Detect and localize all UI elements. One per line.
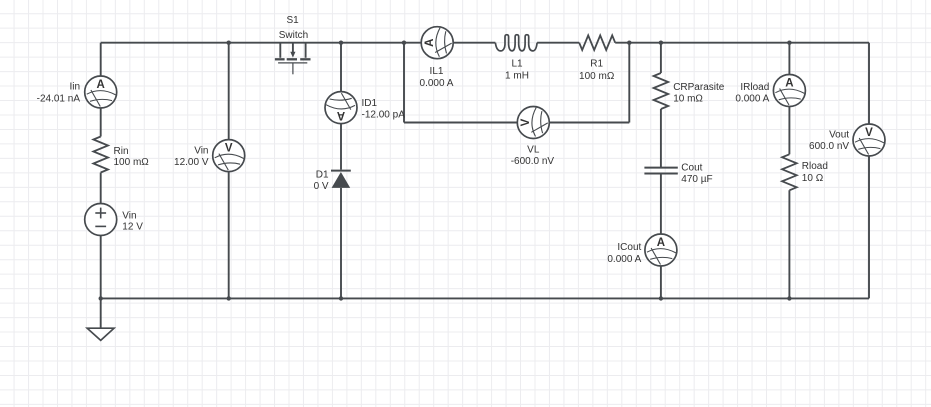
wire IRload Rload-to-bottom xyxy=(788,190,790,298)
label IL1 xyxy=(420,66,454,89)
wire D1 branch diode-to-bottom xyxy=(340,188,342,299)
svg-text:470 µF: 470 µF xyxy=(681,174,712,185)
svg-text:VL: VL xyxy=(527,144,540,155)
label Cout xyxy=(681,162,712,185)
svg-text:A: A xyxy=(424,39,436,47)
ammeter Iin xyxy=(85,76,117,108)
label VL xyxy=(511,144,555,167)
label Rin xyxy=(114,146,150,168)
wire left branch Rin-to-Vin xyxy=(100,173,102,204)
svg-text:600.0 nV: 600.0 nV xyxy=(809,141,849,152)
svg-text:Vout: Vout xyxy=(829,129,849,140)
svg-text:V: V xyxy=(865,127,873,139)
wire IRload meter-to-Rload xyxy=(788,107,790,155)
svg-text:ICout: ICout xyxy=(617,242,641,253)
wire top rail R1-to-right-corner segment xyxy=(615,42,869,44)
node top rail / VL loop right xyxy=(627,41,631,45)
svg-text:A: A xyxy=(337,109,345,121)
svg-text:L1: L1 xyxy=(511,59,523,70)
svg-text:A: A xyxy=(97,79,105,91)
wire Vin voltmeter branch upper xyxy=(228,43,230,140)
svg-text:D1: D1 xyxy=(316,169,329,180)
wire CRParasite cap-to-ICout xyxy=(660,174,662,235)
wire top rail left segment xyxy=(101,42,422,44)
voltmeter VL xyxy=(517,107,549,139)
wire IRload branch upper xyxy=(788,43,790,75)
svg-text:-600.0 nV: -600.0 nV xyxy=(511,156,555,167)
label ID1 xyxy=(362,98,406,120)
svg-text:0 V: 0 V xyxy=(314,181,329,192)
svg-text:A: A xyxy=(785,77,793,89)
node bottom rail / IRload xyxy=(787,296,791,300)
wire VL loop right vertical xyxy=(628,43,630,123)
resistor Rin xyxy=(93,137,108,173)
svg-text:IRload: IRload xyxy=(740,82,769,93)
ground xyxy=(87,298,114,340)
label CRParasite xyxy=(673,82,725,105)
diode D1 xyxy=(331,171,351,188)
voltage source Vin xyxy=(85,204,117,236)
node top rail / Vin voltmeter xyxy=(227,41,231,45)
svg-text:0.000 A: 0.000 A xyxy=(735,94,769,105)
svg-text:Rin: Rin xyxy=(114,146,129,157)
svg-text:12 V: 12 V xyxy=(122,222,143,233)
svg-text:IL1: IL1 xyxy=(430,66,444,77)
wire top rail IL1-to-L1 segment xyxy=(453,42,495,44)
label Vin source xyxy=(122,210,143,232)
voltmeter Vin xyxy=(213,140,245,172)
resistor CRParasite xyxy=(654,73,669,109)
label Iin xyxy=(37,81,81,104)
svg-text:R1: R1 xyxy=(590,59,603,70)
wire VL loop left horizontal xyxy=(404,122,517,124)
svg-text:CRParasite: CRParasite xyxy=(673,82,725,93)
ammeter ICout xyxy=(645,234,677,266)
inductor L1 xyxy=(495,35,537,51)
svg-text:Vin: Vin xyxy=(122,210,136,221)
svg-text:0.000 A: 0.000 A xyxy=(607,254,641,265)
svg-text:V: V xyxy=(520,118,532,126)
wire bottom rail xyxy=(101,297,869,299)
svg-text:-24.01 nA: -24.01 nA xyxy=(37,93,81,104)
node bottom rail / Vin voltmeter xyxy=(227,296,231,300)
svg-text:S1: S1 xyxy=(286,15,299,26)
wire left branch Iin-to-Rin xyxy=(100,108,102,137)
svg-text:10 mΩ: 10 mΩ xyxy=(673,94,703,105)
wire D1 branch meter-to-diode xyxy=(340,124,342,170)
node top rail / IRload xyxy=(787,41,791,45)
svg-text:Cout: Cout xyxy=(681,162,702,173)
svg-text:A: A xyxy=(657,237,665,249)
svg-text:100 mΩ: 100 mΩ xyxy=(579,71,615,82)
label Rload xyxy=(802,161,828,184)
wire D1 branch upper xyxy=(340,43,342,92)
label ICout xyxy=(607,242,641,265)
ammeter ID1 xyxy=(325,92,357,124)
ammeter IRload xyxy=(773,75,805,107)
svg-text:100 mΩ: 100 mΩ xyxy=(114,157,150,168)
wire left branch Vin-to-bottom xyxy=(100,236,102,299)
label Vout xyxy=(809,129,849,152)
node bottom rail / ground xyxy=(99,296,103,300)
label IRload xyxy=(735,82,769,105)
label Vin voltmeter xyxy=(174,145,209,168)
wire right branch upper xyxy=(868,43,870,124)
resistor Rload xyxy=(782,154,797,190)
svg-text:0.000 A: 0.000 A xyxy=(420,78,454,89)
wire VL loop left vertical xyxy=(403,43,405,123)
wire left branch upper xyxy=(100,43,102,76)
wire top rail L1-to-R1 segment xyxy=(537,42,579,44)
node top rail / VL loop left xyxy=(402,41,406,45)
node top rail / D1 branch xyxy=(339,41,343,45)
node top rail / CRParasite xyxy=(659,41,663,45)
wire VL loop right horizontal xyxy=(549,122,629,124)
svg-text:Switch: Switch xyxy=(279,30,308,41)
svg-text:Rload: Rload xyxy=(802,161,828,172)
wire CRParasite resistor-to-cap xyxy=(660,109,662,168)
svg-text:10 Ω: 10 Ω xyxy=(802,173,824,184)
node bottom rail / D1 branch xyxy=(339,296,343,300)
svg-text:1 mH: 1 mH xyxy=(505,71,529,82)
label D1 xyxy=(314,169,329,192)
wire CRParasite ICout-to-bottom xyxy=(660,266,662,298)
svg-text:V: V xyxy=(225,142,233,154)
capacitor Cout xyxy=(644,168,677,174)
wire right branch lower xyxy=(868,156,870,298)
label L1 xyxy=(505,59,529,82)
wire CRParasite branch upper xyxy=(660,43,662,73)
svg-text:-12.00 pA: -12.00 pA xyxy=(362,110,406,121)
svg-text:Vin: Vin xyxy=(194,145,208,156)
ammeter IL1 xyxy=(421,27,453,59)
label R1 xyxy=(579,59,615,82)
svg-text:ID1: ID1 xyxy=(362,98,378,109)
svg-text:12.00 V: 12.00 V xyxy=(174,157,209,168)
wire Vin voltmeter branch lower xyxy=(228,172,230,299)
transistor-switch S1 xyxy=(275,43,311,75)
label S1 xyxy=(279,15,308,41)
svg-text:Iin: Iin xyxy=(69,81,80,92)
voltmeter Vout xyxy=(853,124,885,156)
resistor R1 xyxy=(579,35,615,50)
node bottom rail / CRParasite xyxy=(659,296,663,300)
